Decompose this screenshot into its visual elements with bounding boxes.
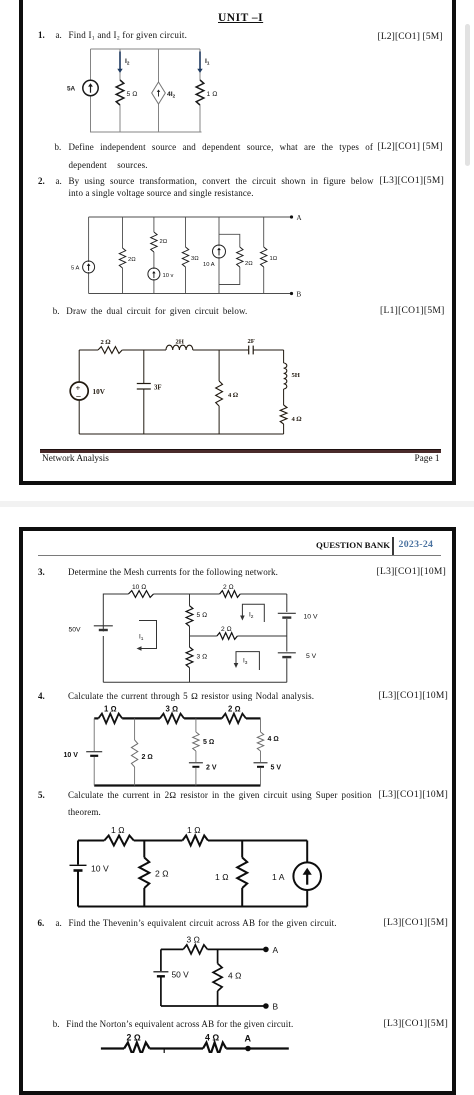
label I3 (243, 658, 248, 666)
svg-text:A: A (245, 1034, 252, 1044)
label 2 ohm (155, 869, 169, 879)
label 4 ohm (right) (292, 416, 303, 423)
wire: 4-ohm + 5V branch (260, 718, 262, 785)
label 10 v (163, 273, 174, 279)
label 1 ohm (104, 705, 117, 714)
circuit for Q5: superposition (55, 815, 335, 920)
resistor 4 ohm (257, 732, 263, 751)
node A (290, 214, 302, 222)
wire: circuit2b top rail (79, 349, 283, 351)
wire: circuit6b middle branch (cut) (163, 1049, 165, 1054)
svg-text:5A: 5A (67, 86, 76, 93)
svg-text:2Ω: 2Ω (160, 239, 168, 245)
svg-text:I1: I1 (205, 58, 210, 66)
svg-text:1 Ω: 1 Ω (215, 872, 229, 882)
label 4 ohm (205, 1033, 219, 1043)
label 4 ohm (268, 736, 279, 743)
current arrow I1 (197, 52, 202, 74)
svg-text:3Ω: 3Ω (191, 256, 199, 262)
wire: 1-ohm branch (199, 49, 201, 132)
wire: circuit5 top rail (78, 840, 307, 842)
current source 5A (83, 80, 98, 95)
circuit for Q6a: Thevenin (140, 925, 300, 1020)
battery 5V (254, 763, 268, 767)
wire: circuit5 bottom rail (78, 906, 307, 908)
wire: circuit2a top rail (89, 216, 292, 218)
svg-text:A: A (297, 214, 302, 222)
label 3 ohm (191, 256, 199, 262)
svg-text:2Ω: 2Ω (128, 257, 136, 263)
mesh arrow I2 (240, 604, 264, 622)
svg-text:2H: 2H (176, 339, 185, 346)
svg-text:4 Ω: 4 Ω (205, 1033, 219, 1043)
label 50V (69, 627, 82, 634)
resistor 5 ohm (116, 80, 124, 105)
svg-text:10 V: 10 V (91, 864, 109, 874)
label 5 ohm (203, 739, 214, 746)
svg-text:10 Ω: 10 Ω (132, 584, 146, 591)
resistor 2 ohm (top right) (220, 591, 241, 598)
svg-text:5H: 5H (292, 372, 301, 379)
label 5A (67, 86, 76, 93)
label 2 ohm (branch 2) (128, 257, 136, 263)
label 3 ohm (166, 705, 179, 714)
label I2 (249, 612, 254, 620)
svg-text:4 Ω: 4 Ω (268, 736, 279, 743)
wire: dependent source branch (158, 49, 160, 132)
svg-text:1 Ω: 1 Ω (187, 825, 201, 835)
circuit for Q6b: Norton (partial) (90, 1030, 300, 1053)
resistor 4 ohm (213, 964, 222, 992)
resistor 1 ohm (top) (98, 714, 122, 724)
wire: 3-ohm branch (185, 217, 187, 294)
circuit for Q3: mesh analysis (60, 580, 330, 690)
capacitor 3F (137, 384, 151, 390)
svg-text:I1: I1 (139, 634, 144, 642)
capacitor 2F (249, 346, 254, 355)
mesh arrow I1 (137, 621, 157, 651)
resistor 4 ohm (partial) (203, 1043, 226, 1055)
label 10 A (203, 262, 215, 268)
resistor 3 ohm (top) (160, 714, 184, 724)
label 5 A (71, 266, 80, 272)
svg-text:2 Ω: 2 Ω (155, 869, 169, 879)
svg-text:4 Ω: 4 Ω (292, 416, 303, 423)
wire: middle vertical branch (189, 594, 191, 682)
label 2 ohm (101, 339, 112, 346)
label 2 V (206, 765, 217, 772)
label 2 ohm (vertical) (142, 754, 153, 761)
svg-text:5 V: 5 V (306, 653, 317, 660)
label 3F (154, 385, 162, 392)
label 3 ohm (187, 935, 201, 945)
wire: 4-ohm branch (217, 949, 219, 1006)
label 2 ohm (branch 3) (160, 239, 168, 245)
node A (partial) (245, 1034, 252, 1052)
wire: 1-ohm branch (right) (241, 841, 243, 907)
circuit for Q2b: dual circuit (55, 330, 315, 442)
svg-text:2 Ω: 2 Ω (228, 705, 241, 714)
battery 2V (189, 763, 203, 767)
wire: circuit6b top rail (partial) (101, 1047, 289, 1049)
label 10 ohm (132, 584, 146, 591)
label 5 ohm (197, 612, 208, 619)
resistor 3 ohm (186, 647, 193, 668)
svg-text:1Ω: 1Ω (270, 256, 278, 262)
svg-text:50 V: 50 V (172, 970, 190, 980)
wire: circuit1 left branch (90, 49, 92, 132)
resistor 5 ohm (186, 606, 193, 627)
wire: 5-ohm branch (119, 49, 121, 132)
svg-text:3 Ω: 3 Ω (166, 705, 179, 714)
voltage source 10V + wire left branch (70, 350, 88, 434)
resistor 1 ohm (top middle) (182, 836, 208, 846)
wire: circuit2a bottom rail (89, 293, 292, 295)
resistor 5 ohm (193, 732, 199, 751)
svg-text:2 Ω: 2 Ω (223, 584, 234, 591)
svg-text:I2: I2 (125, 58, 130, 66)
svg-text:3F: 3F (154, 385, 162, 392)
node B (290, 291, 302, 299)
label 1 ohm (vertical) (215, 872, 229, 882)
svg-text:A: A (273, 945, 279, 955)
label 2H (176, 339, 185, 346)
wire: middle horizontal branch (190, 635, 287, 637)
svg-text:5 Ω: 5 Ω (197, 612, 208, 619)
svg-text:2 Ω: 2 Ω (127, 1033, 141, 1043)
svg-text:2F: 2F (248, 338, 255, 345)
label 2 ohm (top) (223, 584, 234, 591)
circuit for Q4: nodal analysis (55, 700, 310, 795)
resistor 2 ohm (parallel with 10A) (237, 247, 243, 267)
wire: circuit4 top rail (bold) (94, 717, 260, 719)
node B (263, 1002, 278, 1012)
svg-text:2Ω: 2Ω (245, 261, 253, 267)
inductor 2H (166, 345, 193, 350)
wire: circuit6a top rail (161, 948, 266, 950)
svg-text:3 Ω: 3 Ω (197, 654, 208, 661)
label 4 ohm (middle) (228, 392, 239, 399)
resistor 1 ohm (top left) (104, 836, 134, 846)
label 2 ohm (parallel) (245, 261, 253, 267)
resistor 2 ohm (partial) (124, 1043, 150, 1055)
resistor 2 ohm (branch 3) (151, 232, 157, 252)
wire: circuit2b bottom rail (79, 433, 283, 435)
wire: circuit4 bottom rail (bold) (94, 784, 260, 786)
svg-text:−: − (76, 393, 81, 403)
svg-text:B: B (297, 291, 302, 299)
svg-text:5 Ω: 5 Ω (127, 91, 138, 98)
battery 50V (94, 626, 113, 631)
svg-text:5 A: 5 A (71, 266, 80, 272)
label 10 V (304, 614, 318, 621)
label 5 ohm (127, 91, 138, 98)
wire: first 2-ohm branch (122, 217, 124, 294)
svg-text:50V: 50V (69, 627, 82, 634)
svg-text:2 Ω: 2 Ω (101, 339, 112, 346)
wire: 5A branch (88, 217, 90, 294)
inductor 5H (284, 363, 287, 389)
resistor 10 ohm (top left) (128, 591, 153, 598)
svg-text:10 V: 10 V (304, 614, 318, 621)
resistor 2 ohm (139, 858, 149, 889)
battery 10V (278, 613, 296, 617)
label 1 ohm (left) (111, 825, 125, 835)
current source 1A (293, 862, 321, 890)
mesh arrow I3 (234, 652, 260, 670)
label 10 V (91, 864, 109, 874)
label 2F (248, 338, 255, 345)
label 4I2 (167, 91, 176, 99)
svg-text:10 v: 10 v (163, 273, 174, 279)
svg-text:1 Ω: 1 Ω (104, 705, 117, 714)
svg-text:B: B (273, 1002, 279, 1012)
svg-text:10 A: 10 A (203, 262, 215, 268)
wire: 10A branch (218, 217, 220, 294)
wire: 1-ohm branch (263, 217, 265, 294)
svg-text:4 Ω: 4 Ω (228, 971, 242, 981)
wire: left branch + battery 10V (70, 841, 87, 907)
resistor 4 ohm (middle) (216, 381, 223, 406)
svg-text:1 Ω: 1 Ω (207, 91, 218, 98)
resistor 1 ohm (vertical) (237, 858, 247, 889)
svg-text:+: + (76, 383, 81, 393)
wire: 4-ohm branch (218, 350, 220, 434)
voltage source 10V (148, 268, 160, 280)
label 3 ohm (197, 654, 208, 661)
label 2 ohm (127, 1033, 141, 1043)
svg-text:5 V: 5 V (271, 765, 282, 772)
resistor 2 ohm (middle) (217, 633, 238, 640)
svg-text:2 Ω: 2 Ω (221, 626, 232, 633)
svg-text:1 A: 1 A (272, 872, 285, 882)
label 1 ohm (207, 91, 218, 98)
current source 5A (83, 261, 95, 273)
svg-text:10V: 10V (93, 388, 106, 396)
resistor 2 ohm (top right) (222, 714, 246, 724)
dependent current source 4I2 (diamond) (152, 82, 166, 104)
wire: left branch + battery 50V (153, 949, 168, 1006)
label 2 ohm (top) (228, 705, 241, 714)
current source 10A (213, 245, 226, 258)
label I1 (139, 634, 144, 642)
svg-text:I3: I3 (243, 658, 248, 666)
label I2 (125, 58, 130, 66)
label 1 ohm (270, 256, 278, 262)
label 4 ohm (228, 971, 242, 981)
circuit for Q2a: source transformation (55, 205, 310, 305)
svg-text:4 Ω: 4 Ω (228, 392, 239, 399)
svg-text:2 Ω: 2 Ω (142, 754, 153, 761)
wire: circuit1 top rail (91, 48, 201, 50)
label 1 ohm (middle) (187, 825, 201, 835)
wire: 3F branch (143, 350, 145, 434)
node A (263, 945, 278, 955)
wire: left branch + battery 10V (86, 718, 102, 785)
resistor 2 ohm (branch 2) (119, 248, 125, 268)
resistor 4 ohm (right) (280, 405, 287, 424)
wire: parallel 2-ohm loop (219, 234, 240, 284)
svg-text:1 Ω: 1 Ω (111, 825, 125, 835)
battery 5V (278, 653, 296, 657)
label 5 V (271, 765, 282, 772)
svg-text:10 V: 10 V (64, 752, 79, 759)
label 5H (292, 372, 301, 379)
resistor 3 ohm (182, 247, 188, 267)
svg-text:I2: I2 (249, 612, 254, 620)
wire: 2-ohm branch (143, 841, 145, 907)
label 50 V (172, 970, 190, 980)
wire: circuit3 outer loop (103, 594, 286, 682)
label 2 ohm (middle) (221, 626, 232, 633)
wire: circuit6a bottom rail (161, 1005, 266, 1007)
label 10 V (64, 752, 79, 759)
current arrow I2 (117, 52, 122, 74)
wire: circuit1 bottom rail (90, 131, 202, 133)
wire: right branch (283, 350, 285, 434)
svg-text:2 V: 2 V (206, 765, 217, 772)
svg-text:3 Ω: 3 Ω (187, 935, 201, 945)
resistor 1 ohm (261, 247, 267, 267)
resistor 1 ohm (196, 80, 204, 105)
wire: 2-ohm + 10V branch (153, 217, 155, 294)
circuit for Q1a: find I1 and I2 (55, 42, 270, 142)
label 5 V (306, 653, 317, 660)
svg-text:4I2: 4I2 (167, 91, 176, 99)
resistor 2 ohm (top) (98, 347, 122, 354)
svg-text:5 Ω: 5 Ω (203, 739, 214, 746)
resistor 2 ohm (vertical) (131, 740, 137, 767)
label 1 A (272, 872, 285, 882)
label I1 (205, 58, 210, 66)
label 10V (93, 388, 106, 396)
resistor 3 ohm (183, 945, 207, 954)
wire: 5-ohm + 2V branch (195, 718, 197, 785)
wire: 1A source branch (306, 841, 308, 907)
wire: 2-ohm branch (134, 718, 136, 785)
